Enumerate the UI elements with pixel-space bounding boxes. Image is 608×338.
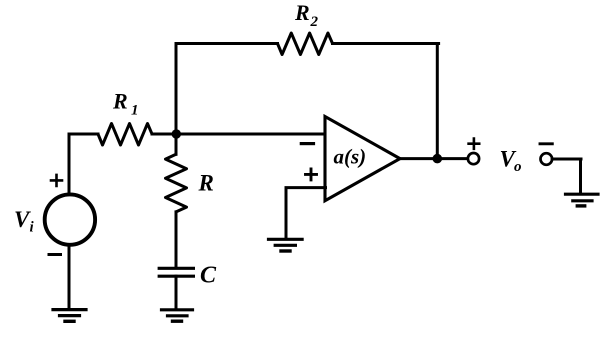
label minus (Vo terminal) — [540, 142, 552, 145]
wire R to capacitor — [175, 212, 178, 267]
wire top feedback horizontal right — [333, 42, 439, 45]
svg-text:C: C — [200, 262, 217, 288]
ground (Vo) — [566, 193, 599, 196]
ground (C) — [162, 308, 193, 311]
op-amp U1 — [325, 117, 400, 201]
ground (Vi) — [53, 308, 86, 311]
resistor R1 — [98, 124, 152, 146]
node inverting input junction — [172, 129, 181, 138]
wire Vo minus terminal to ground — [552, 159, 581, 193]
label + (noninverting input) — [306, 169, 317, 180]
wire op-amp output — [399, 157, 468, 160]
label + (Vi) — [51, 175, 62, 186]
svg-text:o: o — [514, 159, 522, 175]
wire node to R — [175, 134, 178, 154]
wire node to op-amp inverting input — [176, 133, 326, 136]
wire feedback vertical right — [436, 44, 439, 159]
svg-text:a(s): a(s) — [334, 145, 367, 169]
svg-text:2: 2 — [310, 14, 319, 30]
svg-text:R: R — [198, 170, 214, 195]
wire feedback vertical left — [175, 44, 178, 136]
wire top feedback horizontal left — [176, 42, 278, 45]
label minus (Vi) — [49, 253, 61, 256]
svg-text:R: R — [112, 89, 128, 114]
label + (Vo terminal) — [469, 139, 480, 149]
wire Vi bottom lead — [68, 246, 71, 308]
svg-text:i: i — [30, 220, 35, 236]
svg-text:V: V — [14, 207, 31, 232]
wire capacitor to ground — [175, 276, 178, 309]
junction output node — [433, 154, 443, 164]
terminal minus (Vo) — [541, 153, 553, 165]
source Vi — [45, 194, 95, 244]
capacitor C — [159, 267, 193, 270]
resistor R — [166, 154, 187, 212]
wire noninverting input — [286, 188, 326, 239]
terminal + (Vo) — [468, 153, 479, 164]
svg-text:1: 1 — [131, 102, 139, 118]
wire Vi top lead — [68, 134, 71, 193]
ground (noninverting input) — [269, 238, 303, 241]
label minus (inverting input) — [301, 142, 313, 145]
resistor R2 — [278, 33, 333, 55]
svg-text:R: R — [294, 0, 310, 25]
wire R1 to node — [152, 133, 176, 136]
wire Vi to R1 — [69, 133, 98, 136]
